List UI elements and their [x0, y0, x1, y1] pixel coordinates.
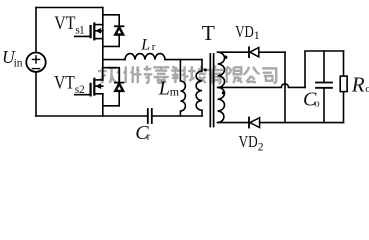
- voltage source U_in circle: [26, 53, 45, 72]
- node secondary lower polarity dot: [222, 91, 225, 94]
- wire L_r to primary: [165, 59, 202, 61]
- drain stub: [94, 24, 103, 26]
- source plus sign: [32, 56, 39, 63]
- transistor Q VT_s2 (MOSFET): [75, 79, 103, 96]
- svg-text:r: r: [147, 131, 151, 143]
- source stub: [94, 93, 103, 95]
- wire left vertical upper: [35, 8, 37, 53]
- svg-text:R: R: [351, 73, 365, 97]
- svg-text:m: m: [170, 84, 180, 98]
- gate bar: [89, 84, 91, 96]
- gate bar: [89, 26, 91, 37]
- wire VD_1 anode to vertical: [259, 51, 285, 53]
- channel bar: [93, 24, 95, 40]
- wire rectifier common vertical: [284, 52, 286, 122]
- char 技: [188, 66, 206, 83]
- watermark 杭州将睿科技有限公司 (vector approximation): [98, 66, 276, 84]
- capacitor C_o: [323, 51, 325, 123]
- source stub: [94, 38, 103, 40]
- resistor R_o: [343, 51, 345, 123]
- node primary polarity dot: [204, 69, 207, 72]
- transformer T secondary winding: [218, 52, 225, 122]
- char 将: [134, 66, 152, 83]
- node secondary top polarity dot: [224, 56, 227, 59]
- svg-text:s1: s1: [75, 24, 85, 36]
- wire center tap riser and output top rail: [305, 51, 344, 87]
- wire top rail: [36, 7, 103, 9]
- char 限: [227, 67, 242, 83]
- diode VT_s2 body diode branch: [103, 68, 119, 83]
- svg-text:1: 1: [254, 30, 260, 42]
- wire output bottom rail: [260, 122, 344, 124]
- capacitor C_r plates: [148, 109, 152, 123]
- diode VD_2: [248, 118, 250, 128]
- wire bottom rail left: [36, 115, 148, 117]
- char 公: [244, 67, 260, 83]
- wire secondary bottom lead: [218, 122, 249, 124]
- bulk stub: [94, 30, 103, 32]
- diode VD_1: [248, 47, 250, 57]
- transformer T primary winding: [196, 60, 202, 116]
- svg-text:r: r: [152, 41, 156, 53]
- wire secondary top lead: [218, 51, 249, 53]
- svg-text:VD: VD: [239, 132, 258, 151]
- svg-text:L: L: [158, 77, 170, 99]
- wire half-bridge main vertical: [102, 8, 104, 117]
- svg-text:VD: VD: [235, 22, 254, 41]
- wire left vertical lower: [35, 72, 37, 116]
- source minus sign: [32, 68, 39, 70]
- svg-text:o: o: [365, 83, 369, 95]
- char 有: [207, 66, 224, 84]
- svg-text:VT: VT: [54, 13, 76, 34]
- bulk stub: [94, 85, 103, 87]
- svg-text:T: T: [202, 21, 215, 45]
- char 司: [262, 68, 276, 83]
- char 州: [117, 66, 133, 83]
- svg-text:o: o: [314, 98, 319, 109]
- svg-text:L: L: [140, 37, 150, 54]
- char 科: [171, 66, 188, 83]
- drain stub: [94, 79, 103, 81]
- wire midpoint to L_r: [103, 59, 125, 61]
- char 杭: [98, 67, 116, 83]
- arrow: [95, 28, 101, 34]
- svg-text:VT: VT: [54, 72, 75, 93]
- arrow: [95, 83, 101, 89]
- svg-text:in: in: [14, 58, 23, 70]
- wire bottom rail right of C_r: [152, 115, 202, 117]
- transformer core lines: [210, 54, 213, 127]
- wire center tap with hop: [218, 84, 305, 88]
- inductor L_m: [180, 60, 185, 116]
- svg-text:2: 2: [258, 141, 264, 153]
- channel bar: [93, 79, 95, 95]
- svg-text:s2: s2: [75, 84, 85, 96]
- gate lead: [75, 35, 91, 37]
- circuit drawing: [26, 8, 347, 128]
- inductor L_r: [125, 54, 165, 60]
- diode VT_s1 body diode branch: [103, 15, 119, 26]
- transistor Q VT_s1 (MOSFET): [75, 24, 103, 40]
- char 睿: [153, 67, 169, 83]
- gate lead: [75, 94, 91, 96]
